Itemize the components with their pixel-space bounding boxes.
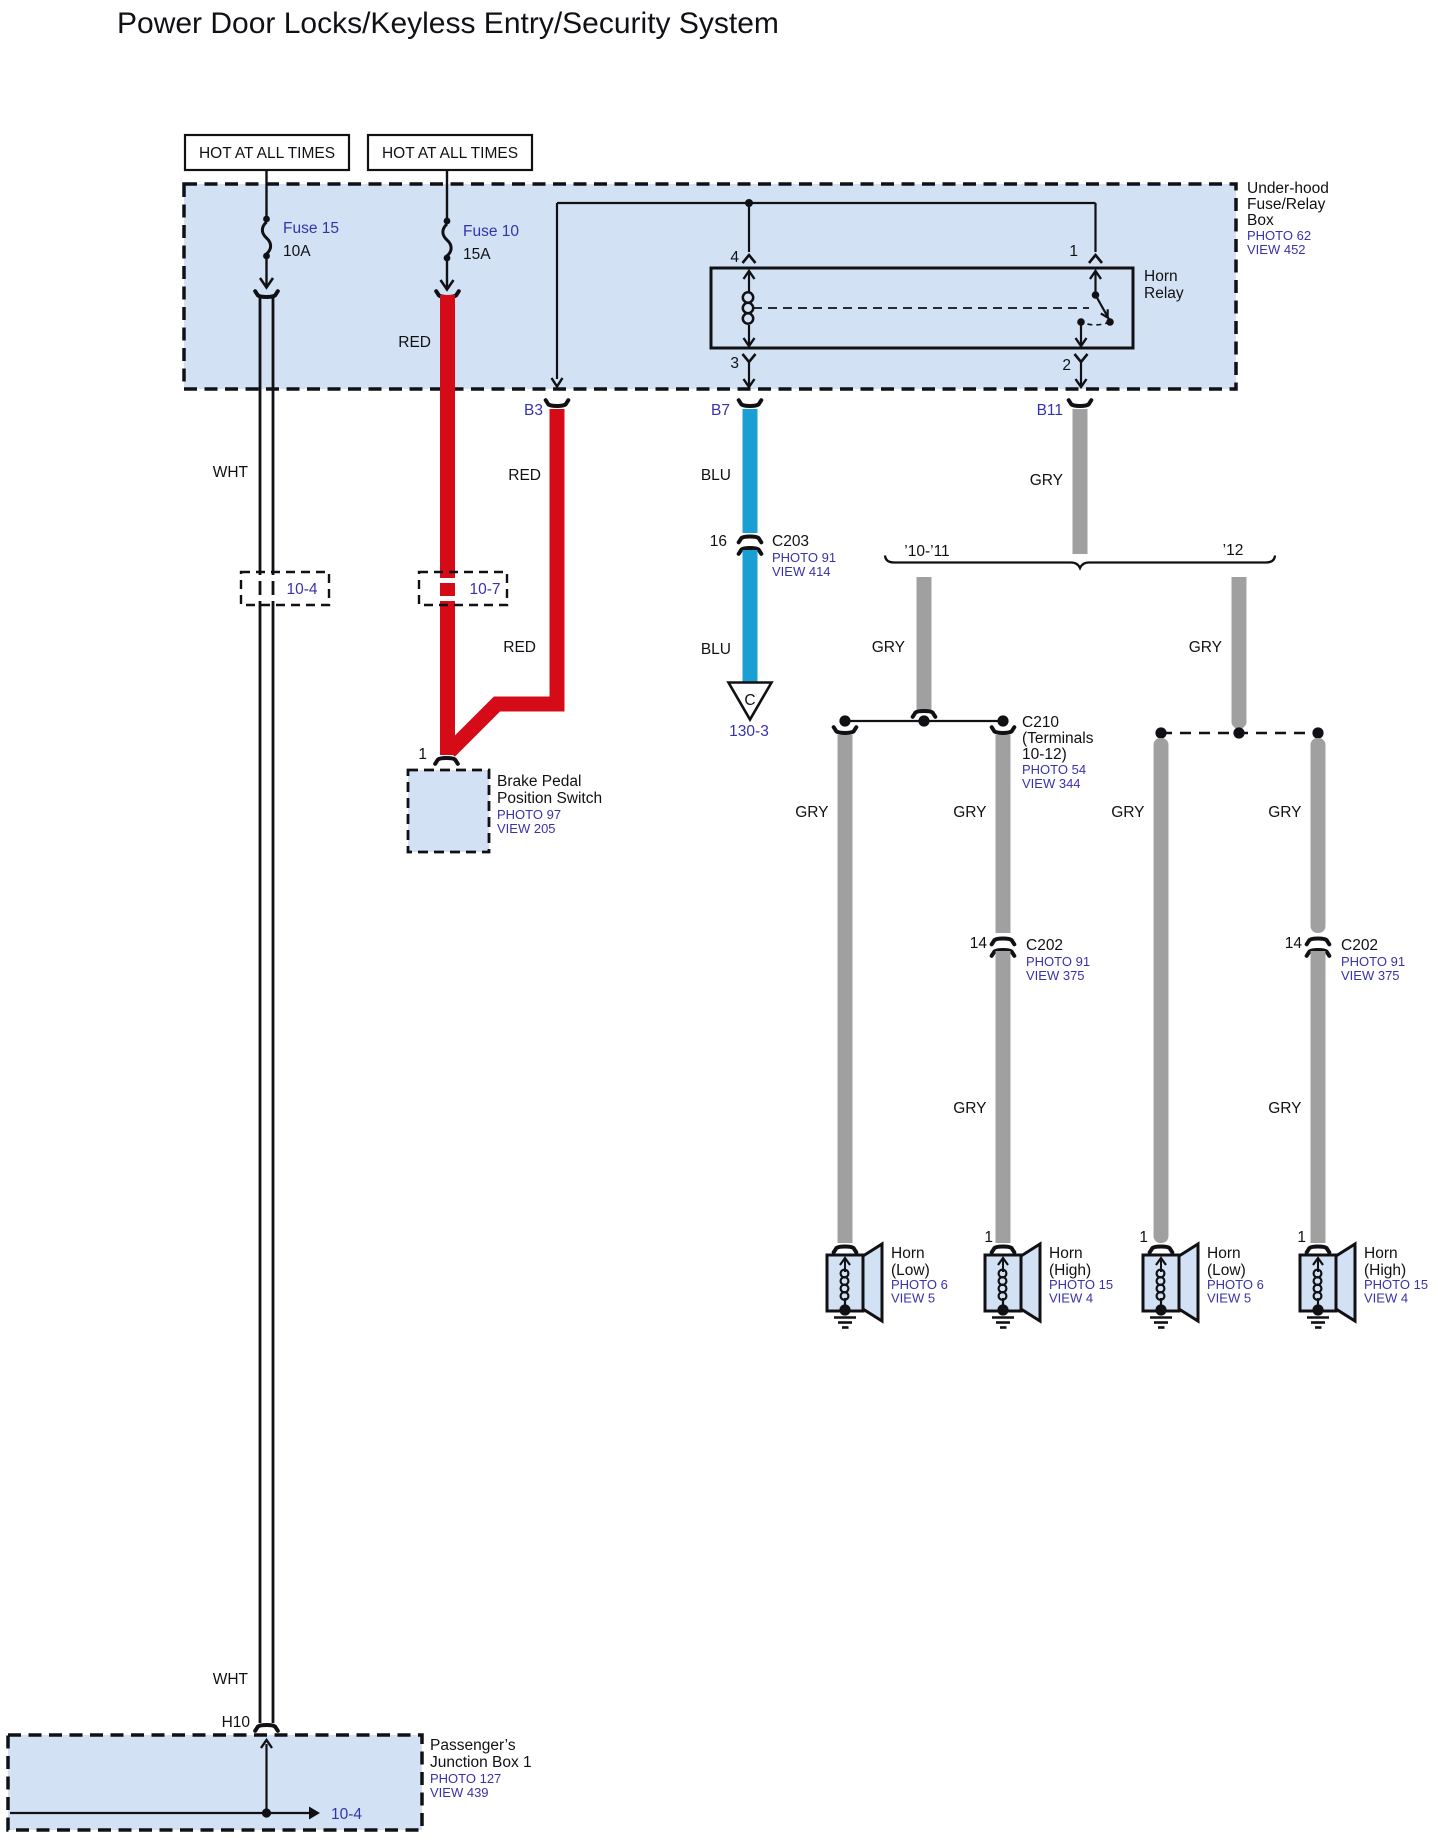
svg-text:Brake Pedal: Brake Pedal [497,773,581,790]
node H10 [222,1714,251,1731]
relay pin 1 [1069,203,1102,263]
connector 10-7 [419,572,507,605]
connector 10-4 [241,572,329,605]
svg-text:PHOTO 91: PHOTO 91 [1341,954,1405,969]
label RED (left of B3 wire) [508,467,541,484]
wire GRY from B11 [1030,409,1088,554]
svg-text:BLU: BLU [701,641,731,658]
wire GRY '12 branch [1189,577,1247,729]
label C210 [1022,714,1094,791]
wire RED from fuse 10 to brake pedal switch [436,291,459,755]
connector C203 [710,533,836,579]
title [117,7,779,40]
svg-text:C210: C210 [1022,714,1059,731]
relay pin 4 [730,203,755,266]
svg-text:Junction Box 1: Junction Box 1 [430,1754,532,1771]
svg-text:3: 3 [730,355,739,372]
wire WHT vertical (fuse 15 to junction box) [255,291,278,1731]
horn high 1 [984,1229,1040,1328]
svg-text:VIEW 452: VIEW 452 [1247,242,1306,257]
svg-text:C: C [744,692,755,709]
node B3 cap [524,400,568,419]
HOT AT ALL TIMES box 1 [185,135,349,170]
horn relay U1 [711,268,1184,348]
horn low 1 [827,1244,882,1328]
svg-text:RED: RED [398,334,431,351]
svg-text:RED: RED [503,639,536,656]
wire BLU lower [701,550,758,683]
svg-text:10-12): 10-12) [1022,746,1067,763]
node B11 cap [1037,400,1092,419]
svg-text:1: 1 [418,746,427,763]
svg-text:1: 1 [1297,1229,1306,1246]
svg-text:PHOTO 91: PHOTO 91 [1026,954,1090,969]
relay pin 3 [730,354,755,387]
svg-text:Position Switch: Position Switch [497,790,602,807]
svg-text:PHOTO 91: PHOTO 91 [772,550,836,565]
svg-text:’12: ’12 [1223,542,1244,559]
svg-text:RED: RED [508,467,541,484]
svg-text:Passenger’s: Passenger’s [430,1737,516,1754]
svg-text:Box: Box [1247,212,1274,229]
relay switch [1076,271,1114,346]
wire GRY horn low 2 [1111,738,1168,1243]
junction box internal wire to 10-4 [10,1740,362,1823]
connector C202 (left) [970,935,1090,983]
svg-text:Fuse/Relay: Fuse/Relay [1247,196,1326,213]
svg-text:GRY: GRY [953,1100,986,1117]
relay coil [743,271,755,346]
svg-text:16: 16 [710,533,727,550]
junction row C210 [839,715,1008,726]
svg-text:B11: B11 [1037,402,1063,419]
svg-text:GRY: GRY [1111,804,1144,821]
wire GRY '10-'11 branch [872,577,936,717]
brake pedal position switch [408,770,602,852]
connector C202 (right) [1285,935,1405,983]
svg-text:C202: C202 [1341,937,1378,954]
svg-text:WHT: WHT [213,464,249,481]
wire GRY horn high 2 lower [1268,951,1325,1243]
label horn low 2 [1207,1245,1264,1306]
wire GRY horn high 1 lower [953,951,1010,1243]
svg-text:Horn: Horn [1049,1245,1083,1262]
svg-text:VIEW 4: VIEW 4 [1049,1291,1093,1306]
svg-text:GRY: GRY [872,639,905,656]
ground triangle C 130-3 [729,683,772,741]
svg-text:PHOTO 127: PHOTO 127 [430,1771,501,1786]
horn low 2 [1139,1229,1198,1328]
year split bracket [885,542,1275,568]
svg-text:GRY: GRY [1268,804,1301,821]
svg-text:VIEW 414: VIEW 414 [772,564,831,579]
svg-text:4: 4 [730,249,739,266]
junction row dashed ('12) [1155,727,1323,738]
svg-text:VIEW 5: VIEW 5 [891,1291,935,1306]
label RED (inside fuse box) [398,334,431,351]
relay internal dashed line [753,307,1089,309]
svg-text:VIEW 205: VIEW 205 [497,821,556,836]
svg-text:Relay: Relay [1144,285,1184,302]
svg-text:GRY: GRY [795,804,828,821]
svg-text:Power Door Locks/Keyless Entry: Power Door Locks/Keyless Entry/Security … [117,7,779,40]
svg-text:GRY: GRY [1030,472,1063,489]
svg-text:10-4: 10-4 [286,581,317,598]
label RED (below 10-7) [503,639,536,656]
svg-text:VIEW 439: VIEW 439 [430,1785,489,1800]
svg-text:GRY: GRY [1268,1100,1301,1117]
svg-text:10A: 10A [283,243,311,260]
svg-text:10-4: 10-4 [331,1806,362,1823]
svg-text:Fuse 10: Fuse 10 [463,223,519,240]
svg-text:VIEW 375: VIEW 375 [1026,968,1085,983]
label WHT lower [213,1671,249,1688]
relay pin 2 [1062,354,1087,387]
under-hood fuse/relay box [184,184,1236,389]
svg-text:B3: B3 [524,402,543,419]
fuse F10 (Fuse 10 15A) [441,170,520,290]
horn high 2 [1297,1229,1355,1328]
svg-text:(Terminals: (Terminals [1022,730,1094,747]
svg-text:PHOTO 54: PHOTO 54 [1022,762,1086,777]
svg-text:HOT AT ALL TIMES: HOT AT ALL TIMES [199,145,335,162]
svg-text:HOT AT ALL TIMES: HOT AT ALL TIMES [382,145,518,162]
svg-text:Horn: Horn [891,1245,925,1262]
svg-text:1: 1 [1069,243,1078,260]
wire BLU upper [701,409,758,533]
HOT AT ALL TIMES box 2 [368,135,532,170]
svg-text:Horn: Horn [1144,268,1178,285]
svg-text:14: 14 [1285,935,1303,952]
svg-text:1: 1 [1139,1229,1148,1246]
label: Under-hood Fuse/Relay Box [1247,180,1329,257]
svg-text:VIEW 4: VIEW 4 [1364,1291,1408,1306]
svg-text:BLU: BLU [701,467,731,484]
svg-text:VIEW 5: VIEW 5 [1207,1291,1251,1306]
wire GRY horn high 2 upper [1268,738,1325,933]
brake switch pin 1 cap [418,746,457,764]
svg-text:Under-hood: Under-hood [1247,180,1329,197]
svg-text:Horn: Horn [1364,1245,1398,1262]
svg-text:Fuse 15: Fuse 15 [283,220,339,237]
label horn high 2 [1364,1245,1428,1306]
svg-text:’10-’11: ’10-’11 [904,543,949,560]
svg-text:WHT: WHT [213,1671,249,1688]
label WHT upper [213,464,249,481]
svg-text:B7: B7 [711,402,730,419]
wire GRY horn low 1 [795,727,856,1243]
wire GRY horn high 1 upper [953,727,1014,933]
svg-text:15A: 15A [463,246,491,263]
svg-text:PHOTO 97: PHOTO 97 [497,807,561,822]
svg-text:130-3: 130-3 [729,723,769,740]
node B7 cap [711,400,761,419]
label horn low 1 [891,1245,948,1306]
svg-text:14: 14 [970,935,988,952]
label horn high 1 [1049,1245,1113,1306]
svg-text:GRY: GRY [1189,639,1222,656]
svg-text:Horn: Horn [1207,1245,1241,1262]
passenger's junction box 1 [8,1735,422,1830]
svg-text:C202: C202 [1026,937,1063,954]
fuse F15 (Fuse 15 10A) [260,170,339,288]
svg-text:VIEW 344: VIEW 344 [1022,776,1081,791]
svg-text:2: 2 [1062,357,1071,374]
svg-text:1: 1 [984,1229,993,1246]
bus wire inside fuse box (top horizontal) [552,199,1096,387]
label passenger's junction box [430,1737,532,1800]
svg-text:C203: C203 [772,533,809,550]
wire RED B3 to brake switch [448,409,565,755]
svg-text:PHOTO 62: PHOTO 62 [1247,228,1311,243]
svg-text:GRY: GRY [953,804,986,821]
svg-text:VIEW 375: VIEW 375 [1341,968,1400,983]
svg-text:10-7: 10-7 [469,581,500,598]
svg-text:H10: H10 [222,1714,251,1731]
